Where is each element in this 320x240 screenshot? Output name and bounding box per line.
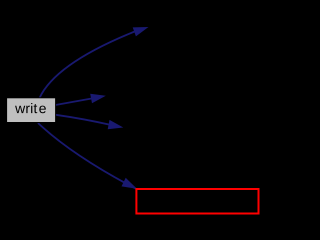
wire: edge write -> top callee (curved spline) [40,29,142,98]
arrowhead: second edge [90,94,106,103]
arrowhead: top edge [133,27,149,36]
arrowhead: third edge [108,120,124,129]
node write (current function, grey box) [7,98,56,123]
wire: edge write -> red callee (curved spline) [38,123,136,189]
arrowhead: bottom edge [122,178,138,189]
wire: edge write -> third callee [56,115,110,125]
node: truncated callee (red border, empty/dark fill) [136,189,258,214]
wire: edge write -> second callee [56,98,94,105]
label "write" (vector outlines, Liberation Sans 14px) [15,103,46,113]
